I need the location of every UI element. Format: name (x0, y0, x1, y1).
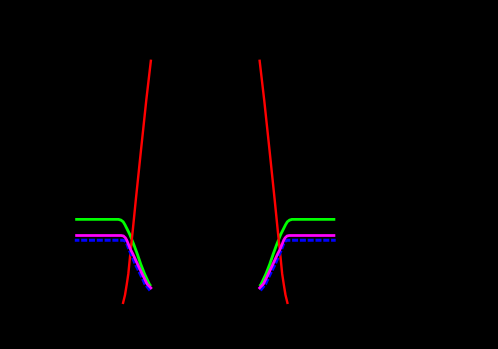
blue dashed curve left (75, 240, 151, 291)
magenta curve right (259, 236, 336, 289)
magenta curve left (75, 236, 152, 289)
red curve left (123, 60, 151, 304)
green curve left (75, 219, 151, 286)
green curve right (260, 219, 336, 286)
red curve right (260, 60, 288, 304)
blue dashed curve right (260, 240, 336, 291)
